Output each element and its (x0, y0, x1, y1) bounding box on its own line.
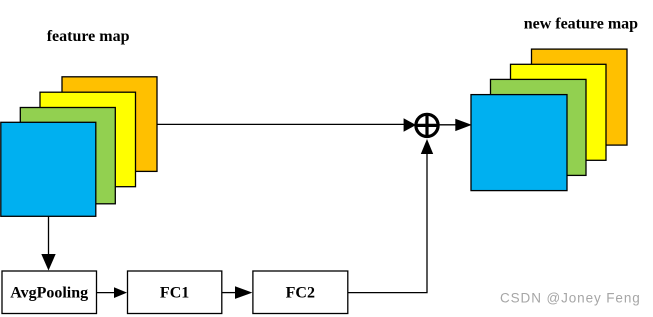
feature map layer orange (left stack, back) (62, 77, 157, 172)
svg-text:FC1: FC1 (160, 285, 189, 302)
svg-text:FC2: FC2 (286, 285, 315, 302)
arrowhead into new feature map (455, 119, 472, 131)
svg-text:CSDN @Joney Feng: CSDN @Joney Feng (500, 291, 641, 306)
feature map layer blue (left stack, front) (1, 122, 96, 216)
wire: AvgPooling to FC1 (97, 292, 115, 294)
block FC1 (128, 271, 222, 314)
wire: blue layer down to AvgPooling (48, 216, 50, 254)
arrowhead into AvgPooling (41, 254, 55, 271)
new feature map layer blue (right stack, front) (471, 95, 567, 191)
wire: feature map to adder (157, 123, 405, 125)
wire: FC2 up to adder (348, 154, 427, 293)
wire: FC1 to FC2 (222, 292, 235, 294)
new feature map layer green (right stack) (491, 79, 587, 175)
new feature map layer yellow (right stack) (511, 64, 607, 160)
feature map layer green (left stack) (20, 108, 115, 204)
adder (circle-plus) (416, 114, 438, 136)
new feature map layer orange (right stack, back) (532, 49, 628, 145)
feature map layer yellow (left stack) (40, 92, 136, 187)
block AvgPooling (2, 271, 97, 314)
svg-text:AvgPooling: AvgPooling (10, 285, 88, 302)
block FC2 (253, 271, 348, 314)
arrowhead into adder (left) (404, 118, 416, 132)
arrowhead into FC2 (235, 286, 252, 299)
svg-text:new feature map: new feature map (524, 16, 638, 33)
arrowhead into adder (bottom) (421, 139, 433, 154)
arrowhead into FC1 (114, 287, 127, 298)
wire: adder to new feature map (439, 124, 456, 126)
svg-text:feature map: feature map (47, 28, 130, 45)
